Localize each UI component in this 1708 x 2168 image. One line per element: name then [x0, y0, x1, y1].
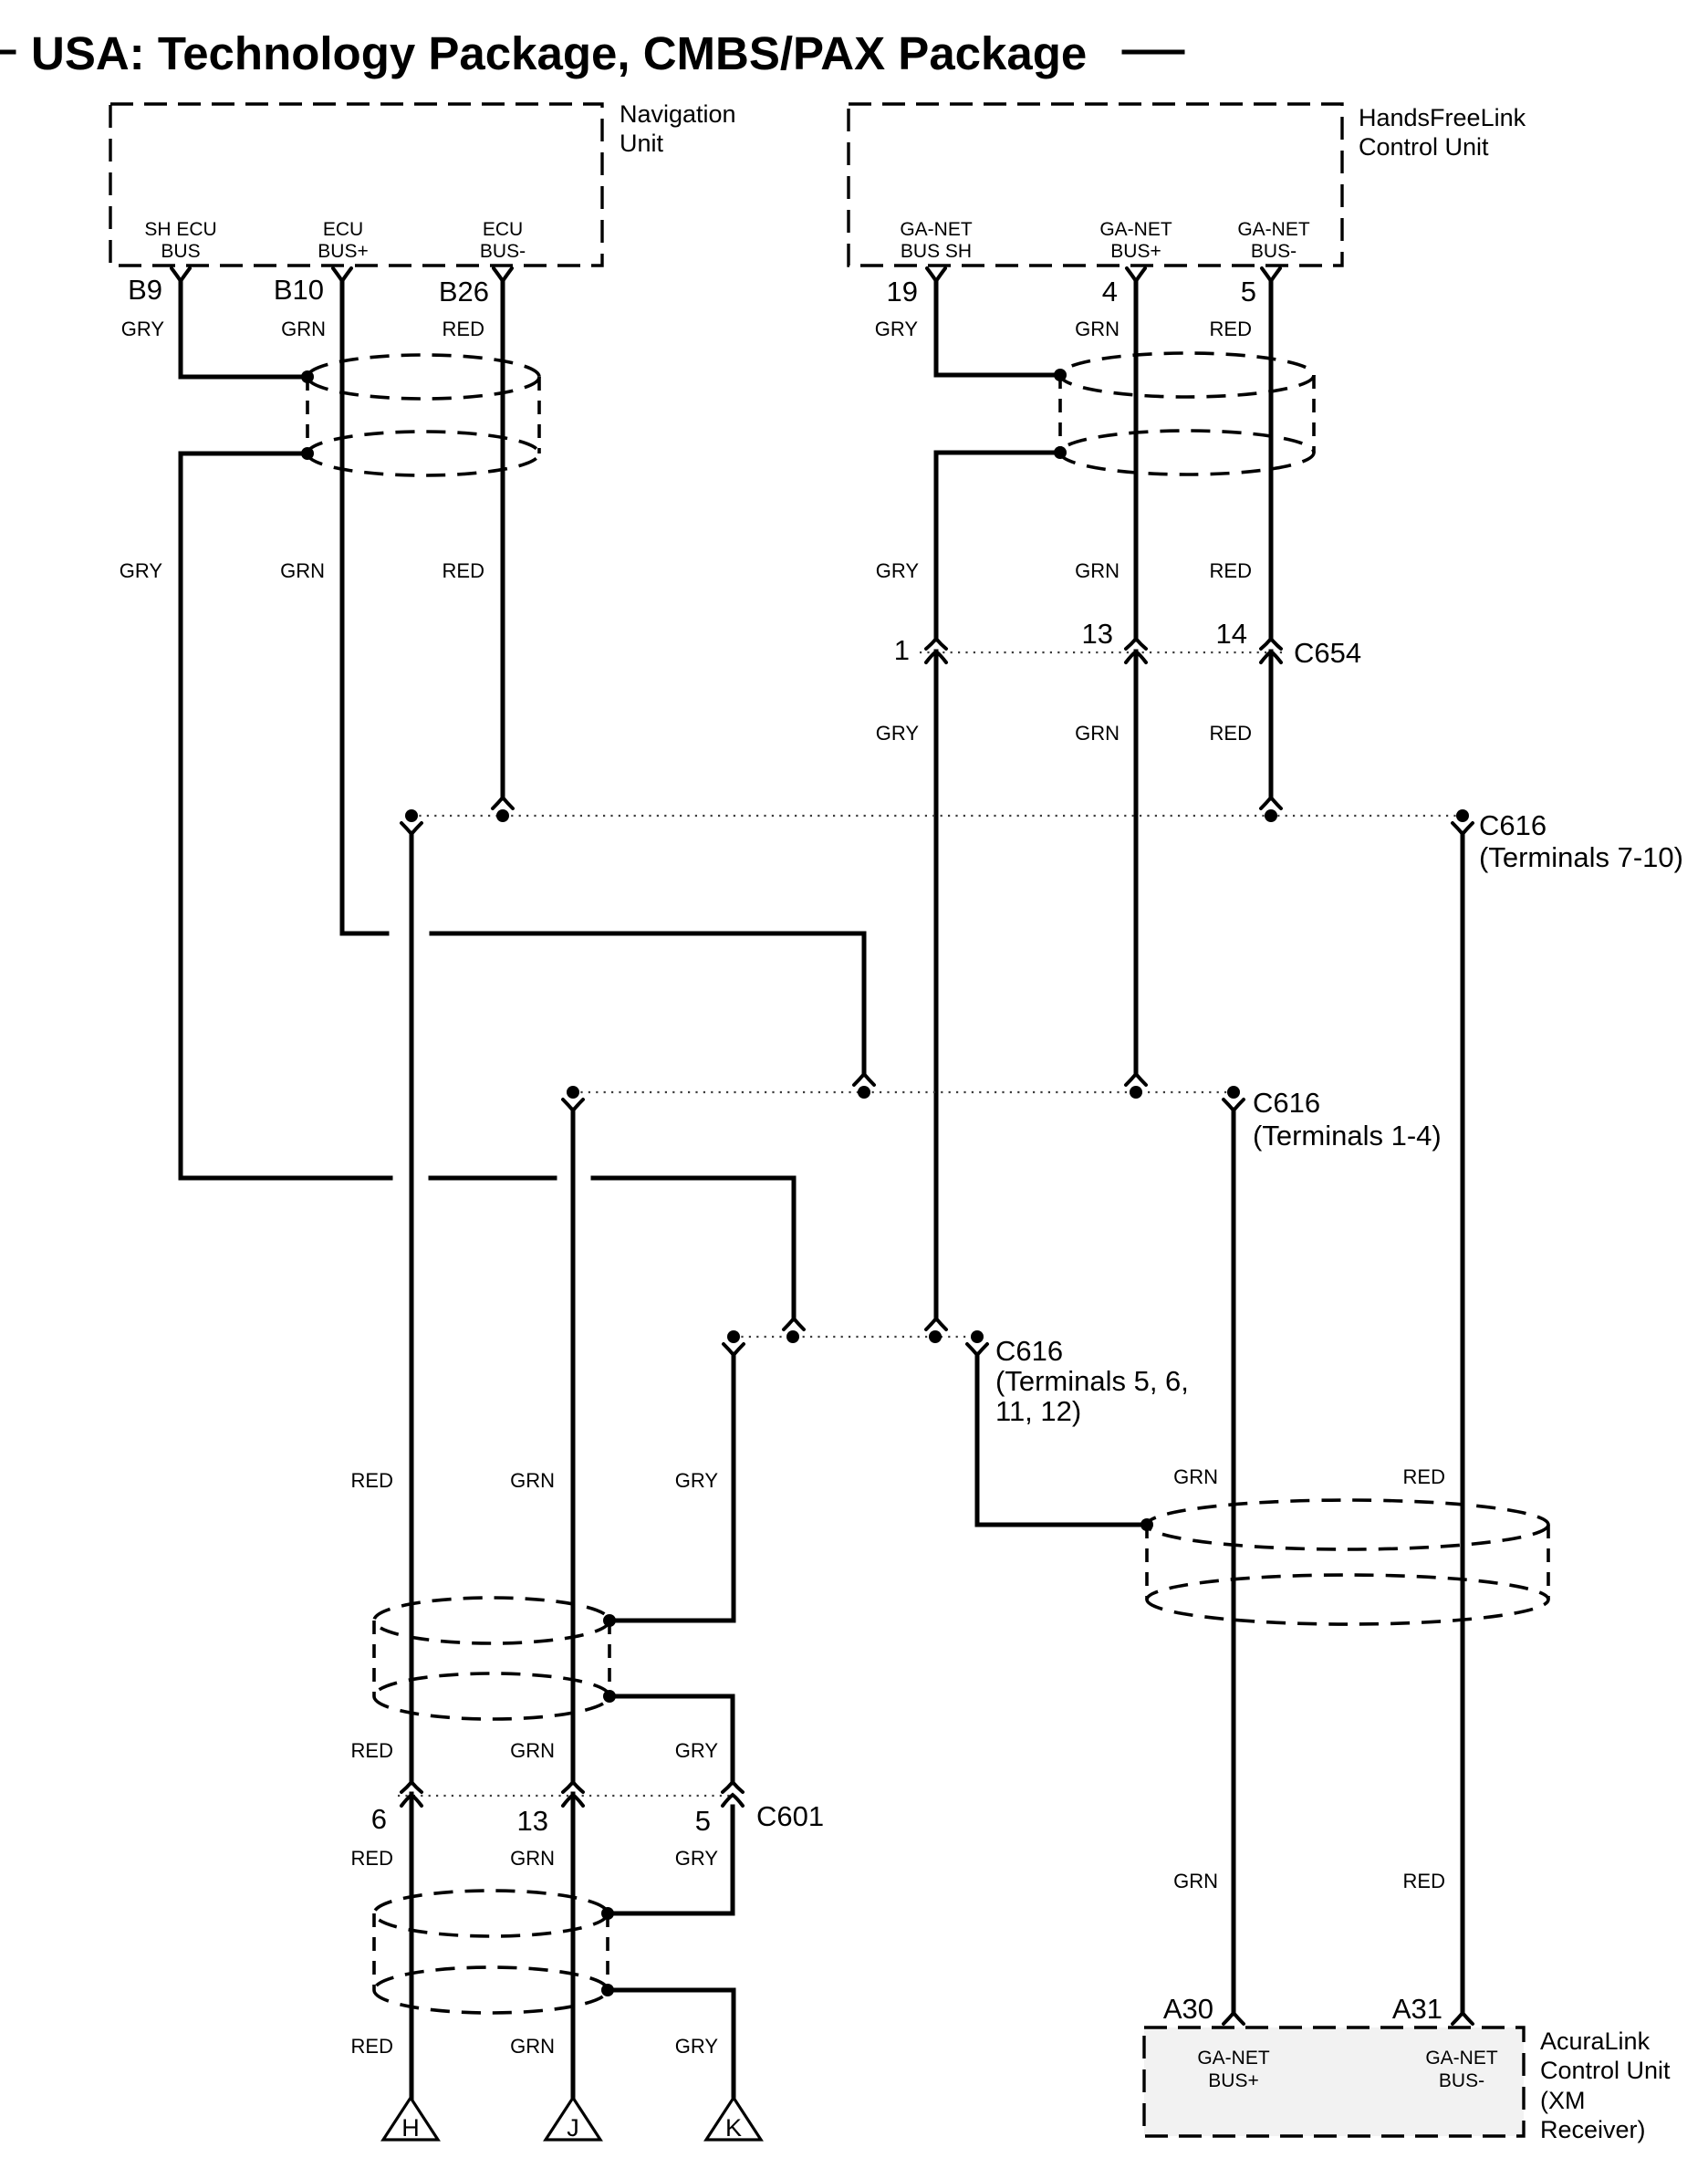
svg-text:C616: C616	[995, 1335, 1063, 1367]
C654 terminal 13 crossing forks	[1126, 639, 1146, 649]
svg-text:ECU: ECU	[483, 219, 523, 240]
svg-text:BUS+: BUS+	[318, 241, 368, 262]
svg-text:(Terminals 5, 6,: (Terminals 5, 6,	[995, 1365, 1189, 1397]
wire 4 GRN vertical to C654	[1134, 282, 1139, 640]
wire RED C654 to C616 terminals 7-10	[1269, 651, 1274, 798]
wire RED C601 down to terminal H	[410, 1794, 414, 2098]
terminal fork GRY leaving C616 5-12 left	[724, 1344, 744, 1355]
svg-text:BUS-: BUS-	[480, 241, 526, 262]
junction dot bottom shield right bottom	[601, 1984, 614, 1996]
svg-text:4: 4	[1102, 276, 1118, 307]
svg-text:13: 13	[517, 1805, 548, 1837]
dot GRY 19 at C616 5-12	[929, 1330, 942, 1343]
svg-text:(Terminals 1-4): (Terminals 1-4)	[1253, 1120, 1442, 1152]
terminal triangle H	[383, 2098, 438, 2140]
svg-text:RED: RED	[1210, 318, 1252, 340]
svg-text:H: H	[401, 2114, 420, 2142]
svg-text:GRN: GRN	[1075, 318, 1120, 340]
dot GRY out-right at C616 5-12	[971, 1330, 984, 1343]
wire GRY from shield down to C654	[936, 453, 1060, 640]
terminal fork GRN 4 at C616 1-4	[1126, 1074, 1146, 1085]
svg-text:13: 13	[1082, 618, 1113, 650]
terminal fork RED B26 at C616 7-10	[493, 797, 513, 808]
wire B9 GRY down and right to shield	[181, 282, 307, 377]
svg-text:19: 19	[887, 276, 918, 307]
svg-text:GA-NET: GA-NET	[1099, 219, 1172, 240]
terminal fork GRY 19 at C616 5-12	[926, 1319, 946, 1329]
wire GRY horizontal to C616 5-12 with crossover gaps	[181, 1178, 794, 1319]
svg-text:5: 5	[1241, 276, 1256, 307]
wire RED C616 7-10 down to AcuraLink A31	[1461, 833, 1465, 2014]
wire GRY from shield down long left	[181, 453, 307, 1178]
svg-text:C616: C616	[1253, 1087, 1320, 1119]
dot RED B26 at C616 7-10	[496, 809, 509, 822]
terminal fork GRY leaving C616 5-12 right	[967, 1344, 987, 1355]
dot RED 5 at C616 7-10	[1265, 809, 1277, 822]
svg-text:GRY: GRY	[675, 1739, 719, 1762]
svg-text:Receiver): Receiver)	[1540, 2116, 1646, 2143]
svg-text:Control Unit: Control Unit	[1359, 133, 1489, 161]
svg-text:J: J	[567, 2114, 579, 2142]
dot GRY nav at C616 5-12	[786, 1330, 799, 1343]
svg-text:(XM: (XM	[1540, 2087, 1586, 2114]
C601 terminal 13 crossing forks	[563, 1782, 583, 1792]
terminal fork RED leaving C616 7-10 left	[401, 823, 422, 834]
svg-text:GRN: GRN	[510, 1469, 555, 1492]
junction dot big shield left top	[1140, 1518, 1153, 1531]
svg-text:BUS+: BUS+	[1208, 2070, 1258, 2091]
svg-text:(Terminals 7-10): (Terminals 7-10)	[1479, 841, 1683, 873]
junction dot shield left top (HFL)	[1054, 369, 1067, 381]
connector C616 (Terminals 1-4) dotted line	[573, 1091, 1234, 1093]
svg-text:5: 5	[695, 1805, 711, 1837]
wire GRN C616 1-4 down to AcuraLink A30	[1232, 1110, 1236, 2014]
terminal triangle J	[546, 2098, 600, 2140]
svg-text:GRN: GRN	[510, 1739, 555, 1762]
svg-text:GA-NET: GA-NET	[1425, 2048, 1498, 2069]
svg-text:11, 12): 11, 12)	[995, 1395, 1081, 1427]
junction dot mid shield right bottom	[603, 1690, 616, 1703]
svg-text:GRN: GRN	[281, 318, 326, 340]
junction dot shield left bottom (HFL)	[1054, 446, 1067, 459]
shield cylinder (Navigation bus pair)	[307, 355, 539, 475]
pin 4 terminal fork	[1127, 268, 1145, 281]
wire GRN horizontal to C616 1-4 with crossover gap	[342, 933, 864, 1075]
shield cylinder (AcuraLink bus pair)	[1147, 1500, 1548, 1624]
svg-text:GRY: GRY	[876, 559, 920, 582]
svg-text:GRY: GRY	[675, 1469, 719, 1492]
svg-text:GRY: GRY	[875, 318, 919, 340]
svg-text:USA: Technology Package, CMBS/: USA: Technology Package, CMBS/PAX Packag…	[31, 27, 1087, 79]
svg-text:K: K	[725, 2114, 742, 2142]
C654 terminal 14 crossing forks	[1261, 639, 1281, 649]
wire GRY C654 to C616 terminals 5-12	[934, 651, 939, 1319]
svg-text:6: 6	[371, 1803, 387, 1835]
svg-text:B10: B10	[274, 274, 324, 306]
svg-text:GA-NET: GA-NET	[1237, 219, 1310, 240]
svg-text:BUS+: BUS+	[1110, 241, 1161, 262]
wire GRY down into mid shield top	[609, 1354, 734, 1621]
wire GRN C601 down to terminal J	[571, 1794, 576, 2098]
svg-text:GRN: GRN	[510, 1847, 555, 1870]
svg-text:A31: A31	[1392, 1993, 1442, 2025]
title leading dash	[0, 50, 14, 55]
svg-text:BUS SH: BUS SH	[901, 241, 972, 262]
svg-text:SH ECU: SH ECU	[144, 219, 216, 240]
junction dot mid shield right top	[603, 1614, 616, 1627]
svg-text:B26: B26	[439, 276, 489, 307]
svg-text:GRY: GRY	[675, 2035, 719, 2058]
pin 5 terminal fork	[1262, 268, 1280, 281]
wire GRY from mid shield to C601	[609, 1696, 733, 1783]
svg-text:BUS: BUS	[161, 241, 200, 262]
pin B10 terminal fork	[333, 268, 351, 281]
svg-text:1: 1	[894, 634, 910, 666]
connector C654 dotted line	[920, 651, 1286, 653]
junction dot bottom shield right top	[601, 1907, 614, 1920]
terminal fork GRN leaving C616 1-4 right	[1224, 1100, 1244, 1110]
svg-text:Unit: Unit	[620, 130, 664, 157]
shield cylinder (HandsFreeLink bus pair)	[1060, 353, 1314, 474]
dot GRN out-left at C616 1-4	[567, 1086, 579, 1099]
connector C616 (Terminals 5,6,11,12) dotted line	[734, 1336, 977, 1338]
terminal fork GRN nav at C616 1-4	[854, 1074, 874, 1085]
svg-text:RED: RED	[351, 1469, 393, 1492]
svg-text:RED: RED	[351, 1847, 393, 1870]
svg-text:RED: RED	[351, 1739, 393, 1762]
svg-text:GRN: GRN	[1173, 1465, 1218, 1488]
svg-text:GA-NET: GA-NET	[1197, 2048, 1270, 2069]
svg-text:GRN: GRN	[1075, 722, 1120, 745]
connector C616 (Terminals 7-10) dotted line	[411, 815, 1463, 817]
svg-text:B9: B9	[128, 274, 162, 306]
terminal triangle K	[706, 2098, 761, 2140]
wire RED C616 7-10 down to C601	[410, 833, 414, 1783]
svg-text:GRY: GRY	[876, 722, 920, 745]
dot RED out-right at C616 7-10	[1456, 809, 1469, 822]
unit U2 HandsFreeLink Control Unit box	[849, 104, 1342, 266]
unit U3 AcuraLink Control Unit (XM Receiver) box	[1144, 2027, 1524, 2136]
terminal fork RED 5 at C616 7-10	[1261, 797, 1281, 808]
svg-text:GRN: GRN	[280, 559, 325, 582]
svg-text:A30: A30	[1163, 1993, 1213, 2025]
shield cylinder (bottom-left pair)	[374, 1891, 608, 2013]
svg-text:RED: RED	[443, 318, 484, 340]
svg-text:GRY: GRY	[675, 1847, 719, 1870]
svg-text:GRN: GRN	[1173, 1870, 1218, 1892]
terminal fork GRN leaving C616 1-4 left	[563, 1100, 583, 1110]
svg-text:AcuraLink: AcuraLink	[1540, 2027, 1651, 2055]
terminal fork RED leaving C616 7-10 right	[1453, 823, 1473, 834]
svg-text:ECU: ECU	[323, 219, 363, 240]
wire GRY down into big shield	[977, 1354, 1147, 1525]
svg-text:RED: RED	[351, 2035, 393, 2058]
C601 terminal 5 crossing forks	[723, 1782, 743, 1792]
dot GRN out-right at C616 1-4	[1227, 1086, 1240, 1099]
C601 terminal 6 crossing forks	[401, 1782, 422, 1792]
wire GRY from bottom shield to terminal K	[608, 1990, 734, 2096]
dot GRN nav at C616 1-4	[858, 1086, 870, 1099]
junction dot shield left bottom (Nav)	[301, 447, 314, 460]
svg-text:RED: RED	[443, 559, 484, 582]
pin A31 terminal fork	[1453, 2013, 1473, 2024]
unit U1 Navigation Unit box	[110, 104, 602, 266]
title trailing dash	[1124, 50, 1182, 55]
svg-text:Navigation: Navigation	[620, 100, 736, 128]
svg-text:GRN: GRN	[510, 2035, 555, 2058]
svg-text:RED: RED	[1210, 722, 1252, 745]
pin A30 terminal fork	[1224, 2013, 1244, 2024]
connector C601 dotted line	[398, 1795, 735, 1797]
svg-text:Control Unit: Control Unit	[1540, 2057, 1671, 2084]
wire GRY C601 down into bottom shield top	[608, 1807, 733, 1913]
svg-text:RED: RED	[1210, 559, 1252, 582]
svg-text:RED: RED	[1403, 1870, 1445, 1892]
wire B10 GRN vertical	[340, 282, 345, 933]
dot GRN 4 at C616 1-4	[1130, 1086, 1142, 1099]
svg-text:BUS-: BUS-	[1251, 241, 1297, 262]
svg-text:C601: C601	[756, 1800, 824, 1832]
svg-text:GA-NET: GA-NET	[900, 219, 973, 240]
svg-text:GRY: GRY	[121, 318, 165, 340]
pin B26 terminal fork	[494, 268, 512, 281]
pin 19 terminal fork	[927, 268, 945, 281]
terminal fork GRY nav at C616 5-12	[784, 1319, 804, 1329]
svg-text:GRY: GRY	[120, 559, 163, 582]
svg-text:HandsFreeLink: HandsFreeLink	[1359, 104, 1526, 131]
wire GRN C616 1-4 down to C601	[571, 1110, 576, 1783]
svg-text:BUS-: BUS-	[1439, 2070, 1484, 2091]
svg-text:14: 14	[1216, 618, 1247, 650]
pin B9 terminal fork	[172, 268, 190, 281]
svg-text:C654: C654	[1294, 637, 1361, 669]
dot RED out-left at C616 7-10	[405, 809, 418, 822]
shield cylinder (mid-left pair)	[374, 1598, 609, 1719]
svg-text:RED: RED	[1403, 1465, 1445, 1488]
svg-text:C616: C616	[1479, 809, 1547, 841]
wire 5 RED vertical to C654	[1269, 282, 1274, 640]
wire GRN C654 to C616 terminals 1-4	[1134, 651, 1139, 1075]
C654 terminal 1 crossing forks	[926, 639, 946, 649]
dot GRY out-left at C616 5-12	[727, 1330, 740, 1343]
svg-text:GRN: GRN	[1075, 559, 1120, 582]
wire 19 GRY down and right to shield	[936, 282, 1060, 375]
wire B26 RED vertical	[501, 282, 505, 798]
junction dot shield left top (Nav)	[301, 370, 314, 383]
